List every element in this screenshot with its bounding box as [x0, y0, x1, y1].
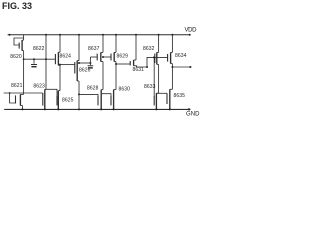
node dot rail/c6 [115, 34, 117, 36]
node 8625 source / GND junction [57, 108, 59, 110]
node dot c8 output tap [171, 66, 173, 68]
transistor 8632 channel [157, 51, 159, 53]
transistor 8629 gate bar [110, 54, 112, 61]
node dot on VDD rail right [189, 34, 191, 36]
transistor 8631 channel [133, 60, 135, 66]
capacitor 8626 lead [89, 63, 91, 65]
transistor 8621 gate bar [15, 95, 17, 103]
wire column c8 lower [171, 64, 173, 90]
svg-text:8626: 8626 [79, 67, 91, 73]
transistor 8627 gate lead [90, 56, 96, 58]
wire column c6 lower [115, 62, 117, 90]
node 8630 source / GND junction [113, 108, 115, 110]
transistor 8634 channel [171, 51, 173, 53]
svg-text:8634: 8634 [175, 53, 187, 59]
node dot wire2 left [9, 92, 11, 94]
wire column c2 upper [45, 35, 47, 59]
transistor 8621 gate-drain loop [10, 93, 16, 103]
node dot c2/wire1 [45, 58, 47, 60]
transistor 8621 channel [23, 93, 25, 94]
transistor 8631 gate bar [129, 61, 131, 65]
transistor 8624 channel [77, 60, 79, 62]
node dot c1/wire1 [23, 58, 25, 60]
node 8623 source / GND junction [44, 108, 46, 110]
svg-text:8632: 8632 [143, 46, 155, 52]
svg-text:8633: 8633 [144, 84, 156, 90]
node dot c6 tap 8631 gate [115, 63, 117, 65]
transistor 8635 channel [170, 88, 173, 90]
svg-text:FIG. 33: FIG. 33 [2, 1, 32, 11]
svg-text:8621: 8621 [11, 83, 23, 89]
transistor 8634 gate bar [167, 54, 169, 62]
transistor 8625 gate bar [56, 96, 58, 105]
node c4 / GND junction [78, 108, 80, 110]
transistor 8622 gate bar [54, 54, 56, 64]
transistor 8623 channel [45, 88, 46, 90]
transistor 8628 gate bar [97, 96, 99, 105]
wire6 8635 gate feed [157, 92, 167, 94]
node dot 8633 gate drop [153, 56, 155, 58]
transistor 8633 channel [156, 92, 158, 94]
svg-text:8629: 8629 [117, 54, 129, 60]
wire 8621 source to rail [21, 105, 23, 109]
transistor 8632 gate bar [154, 54, 156, 63]
transistor 8625 channel [58, 90, 60, 92]
node dot c4 tap wire3 [78, 62, 80, 64]
wire column c1 [23, 35, 25, 40]
svg-text:8625: 8625 [62, 97, 74, 103]
node dot c3 gate tap 8624 [59, 64, 61, 66]
svg-text:8637: 8637 [88, 46, 100, 52]
capacitor 8626 bottom plate [88, 67, 93, 69]
transistor 8627 channel [101, 51, 103, 53]
wire column c2 lower [45, 59, 47, 89]
node dot c4 tap 8628 gate [78, 93, 80, 95]
svg-text:8631: 8631 [133, 67, 145, 73]
wire3 to 8626/8627 [79, 62, 90, 64]
svg-text:8635: 8635 [174, 93, 186, 99]
node dot c5 tap 8629 gate [102, 56, 104, 58]
svg-text:8620: 8620 [10, 54, 22, 60]
transistor 8624 gate bar [74, 62, 76, 74]
node dot rail/c7 [158, 34, 160, 36]
svg-text:GND: GND [186, 112, 200, 118]
wire column c4 lower [78, 81, 80, 109]
wire column c3 upper [59, 35, 61, 52]
node dot rail/8631 drain [135, 34, 137, 36]
node dot rail/c2 [45, 34, 47, 36]
transistor 8630 gate bar [110, 96, 112, 105]
node 8633 source / GND junction [155, 108, 157, 110]
svg-text:8628: 8628 [87, 85, 99, 91]
wire1 bias gate wire [24, 58, 56, 60]
wire column c4 upper [78, 35, 80, 61]
svg-text:8630: 8630 [119, 87, 131, 93]
svg-text:8623: 8623 [33, 83, 45, 89]
transistor 8625 gate feed wire [46, 89, 57, 96]
wire column c5 lower [102, 62, 104, 90]
capacitor 8626 top plate [88, 65, 94, 67]
wire column c3 mid [59, 65, 61, 90]
transistor 8628 channel [101, 89, 103, 91]
capacitor bottom plate [31, 66, 36, 68]
wire3 riser [89, 57, 91, 63]
transistor 8620 gate bar [18, 43, 20, 49]
node dot cap tap [33, 58, 35, 60]
wire column c8 upper [171, 35, 173, 53]
capacitor lead [33, 59, 35, 64]
wire column c7 upper [158, 35, 160, 53]
node dot rail/c8 [171, 34, 173, 36]
transistor 8623 gate bar [42, 93, 44, 106]
svg-text:8624: 8624 [60, 54, 72, 60]
transistor 8631 source path [134, 66, 147, 67]
wire column c7 lower [158, 64, 160, 93]
node output terminal [189, 66, 191, 68]
transistor 8624 gate lead [60, 64, 75, 66]
VDD rail [8, 34, 191, 36]
transistor 8633 gate bar [153, 96, 155, 105]
transistor 8630 channel [114, 89, 116, 91]
transistor 8631 gate lead [116, 63, 130, 65]
wire column c6 upper [115, 35, 117, 53]
node dot rail/c5 [102, 34, 104, 36]
node dot rail/c4 [78, 34, 80, 36]
wire column c5 upper [102, 35, 104, 53]
output wire [172, 66, 191, 68]
GND rail [4, 108, 190, 110]
node wire3 / capacitor 8626 junction [89, 62, 91, 64]
wire4 8630 gate feed [102, 94, 111, 97]
transistor 8620 gate-drain loop [14, 38, 24, 45]
node 8621 source / GND junction [21, 108, 23, 110]
node dot on VDD rail left [9, 34, 11, 36]
transistor 8628 gate feed wire [79, 94, 98, 96]
transistor 8633 gate drop [153, 57, 155, 96]
node 8628 source / GND junction [100, 108, 102, 110]
node 8635 source / GND junction [169, 108, 171, 110]
wire2 lower bias node [4, 92, 43, 94]
node dot GND rail right [188, 108, 190, 110]
wire5 riser and gate wire [147, 57, 168, 67]
svg-text:VDD: VDD [185, 28, 198, 34]
transistor 8622 channel [58, 51, 60, 53]
node 8631 source / riser junction [146, 66, 148, 68]
svg-text:8622: 8622 [33, 46, 45, 52]
transistor 8627 gate bar [96, 54, 98, 61]
transistor 8629 channel [114, 51, 116, 53]
node dot rail/c3 [59, 34, 61, 36]
transistor 8629 gate lead [103, 56, 111, 58]
transistor 8620 channel [21, 40, 23, 51]
transistor 8631 drain drop [135, 35, 137, 60]
transistor 8635 gate bar [166, 93, 168, 104]
capacitor top plate [31, 64, 37, 66]
